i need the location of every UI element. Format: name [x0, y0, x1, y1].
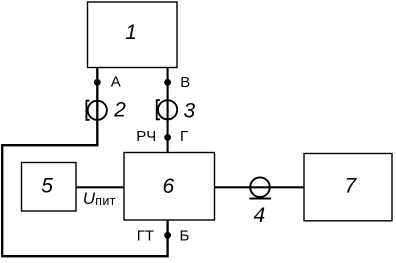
svg-text:7: 7: [345, 175, 358, 198]
svg-text:А: А: [111, 73, 121, 90]
svg-text:6: 6: [162, 175, 174, 198]
svg-text:U: U: [83, 189, 96, 208]
svg-text:2: 2: [113, 99, 126, 122]
svg-text:В: В: [180, 74, 190, 91]
svg-text:РЧ: РЧ: [136, 128, 156, 145]
svg-text:5: 5: [41, 174, 53, 197]
svg-text:ГТ: ГТ: [137, 228, 154, 245]
svg-text:1: 1: [125, 21, 137, 44]
svg-text:4: 4: [253, 204, 265, 227]
svg-text:3: 3: [184, 99, 196, 122]
svg-text:Б: Б: [180, 228, 190, 245]
svg-text:Г: Г: [180, 128, 188, 145]
svg-text:пит: пит: [95, 194, 115, 208]
